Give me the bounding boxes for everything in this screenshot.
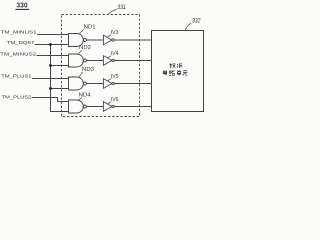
svg-text:ND2: ND2 <box>79 45 91 51</box>
wire IV6 output to block 332 <box>114 106 151 108</box>
wire TM_DQ67 vertical bus <box>51 45 69 112</box>
label ND2 with leader <box>78 45 91 54</box>
label ND3 with leader <box>79 67 94 77</box>
label IV6 with leader <box>108 97 119 104</box>
svg-text:332: 332 <box>192 19 201 25</box>
junction dot at TM_DQ67 tap <box>49 43 52 46</box>
NAND gate ND1 <box>69 34 87 47</box>
wire ND4 output to IV6 <box>86 106 103 108</box>
wire TM_DQ67 to ND1 pin 2 <box>35 44 69 46</box>
label 331 with leader line <box>109 5 126 14</box>
svg-text:TM_MINUS1: TM_MINUS1 <box>1 30 37 36</box>
wire IV4 output to block 332 <box>114 60 151 62</box>
svg-text:TM_DQ67: TM_DQ67 <box>7 40 35 46</box>
junction dot at ND2 branch <box>49 64 52 67</box>
svg-text:IV3: IV3 <box>111 30 119 36</box>
label IV5 with leader <box>108 74 119 81</box>
wire bus branch to ND3 pin 2 <box>51 88 69 90</box>
label IV4 with leader <box>108 51 119 58</box>
junction dot at ND3 branch <box>49 87 52 90</box>
inverter IV3 <box>103 35 114 45</box>
inverter IV4 <box>103 56 114 66</box>
label 332 with leader line <box>185 19 201 31</box>
svg-text:TM_PLUS2: TM_PLUS2 <box>2 95 32 101</box>
wire IV5 output to block 332 <box>114 83 151 85</box>
wire bus branch to ND2 pin 2 <box>51 65 69 67</box>
svg-text:331: 331 <box>117 5 126 11</box>
svg-text:330: 330 <box>16 0 27 9</box>
NAND gate ND2 <box>69 54 87 67</box>
NAND gate ND4 <box>69 100 87 113</box>
wire ND3 output to IV5 <box>86 83 103 85</box>
wire TM_MINUS1 to ND1 pin 1 <box>37 34 68 36</box>
wire ND1 output to IV3 <box>86 39 103 41</box>
wire TM_PLUS1 to ND3 pin 1 <box>32 78 69 80</box>
figure reference label 330 with underline <box>15 0 29 9</box>
label ND1 with leader <box>80 24 96 33</box>
svg-text:IV6: IV6 <box>111 97 119 103</box>
svg-text:IV4: IV4 <box>111 51 119 57</box>
wire TM_PLUS2 with jog down to ND4 pin 1 <box>32 98 69 102</box>
label IV3 with leader <box>108 30 119 37</box>
NAND gate ND3 <box>69 77 87 90</box>
block 332 (calibration circuit unit box) <box>152 31 204 112</box>
svg-text:ND4: ND4 <box>79 93 91 99</box>
svg-text:TM_PLUS1: TM_PLUS1 <box>1 73 32 79</box>
inverter IV5 <box>103 79 114 89</box>
wire IV3 output to block 332 <box>114 39 151 41</box>
CJK text line 2 inside box 332 (dian lu dan yuan) <box>163 70 187 75</box>
svg-text:ND3: ND3 <box>82 67 94 73</box>
CJK text line 1 inside box 332 (xiao zhun) <box>169 63 182 68</box>
wire TM_MINUS2 to ND2 pin 1 <box>37 55 69 57</box>
inverter IV6 <box>103 102 114 112</box>
svg-text:TM_MINUS2: TM_MINUS2 <box>0 52 36 58</box>
wire ND2 output to IV4 <box>86 60 103 62</box>
dashed box 331 (gate block) <box>62 15 140 117</box>
svg-text:IV5: IV5 <box>111 74 119 80</box>
svg-text:ND1: ND1 <box>84 24 96 30</box>
label ND4 with leader <box>79 93 91 100</box>
